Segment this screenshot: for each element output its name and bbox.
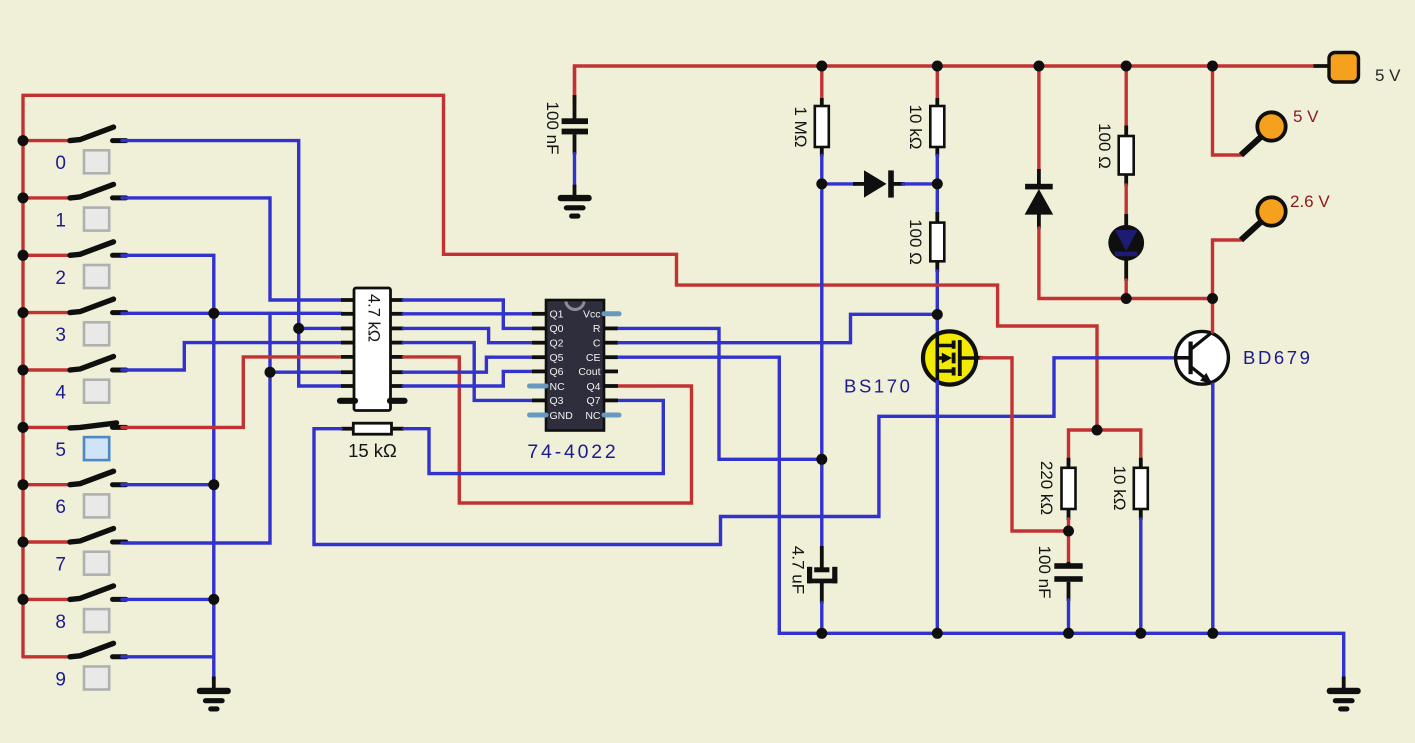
node rail switch6 junction [18,479,29,490]
svg-text:NC: NC [585,410,601,422]
resistor R5 body [935,212,939,224]
wire SW5 to pack row5 [122,357,341,428]
button of SW9 [84,667,109,690]
ground GND1 [573,185,577,196]
wire R1 right to U1 Q7 [404,400,663,473]
svg-text:Q7: Q7 [586,395,600,407]
pin U1 right Vcc (NC) [604,311,619,316]
svg-text:Q6: Q6 [550,366,564,378]
pin RN1 right 4 [390,341,404,345]
svg-text:Q2: Q2 [550,338,564,350]
node R6-R7 top junction [1092,425,1103,436]
wire C2 to ground bus [820,603,823,634]
wire BS170 gate to R6 bottom node [981,358,1069,531]
svg-text:BD679: BD679 [1243,347,1313,368]
svg-text:Q3: Q3 [550,395,564,407]
wire junction to R6 [1069,430,1098,459]
svg-text:100 Ω: 100 Ω [906,219,925,265]
wire R7 to ground bus [1139,519,1142,633]
pin RN1 right 1 [390,298,404,302]
wire pack row5 to U1 Q4 [404,357,692,503]
wire node D1k to R5 [936,184,939,214]
button of SW6 [84,494,109,517]
wire U1 C pin to BS170 drain node [619,314,937,342]
svg-text:0: 0 [55,153,66,174]
pin RN1 left 3 [341,326,355,330]
wire pack row7 to U1 Q6 [404,371,534,386]
pin RN1 right 3 [390,326,404,330]
wire SW0 to pack row7 [122,141,341,386]
pin RN1 right 7 [390,384,404,388]
svg-text:Q4: Q4 [586,381,600,393]
svg-text:10 kΩ: 10 kΩ [1110,466,1129,511]
node LED branch junction [1121,293,1132,304]
switch SW2 [23,242,126,256]
resistor R7 10 kOhm [1134,468,1148,509]
wire pack row2 to U1 Q1 [404,312,534,315]
resistor R6 220 kOhm [1062,468,1076,509]
diode D1 [853,170,905,197]
wire D2 anode to BD679 collector node [1039,228,1213,299]
switch SW4 [23,357,126,371]
button of SW5 [84,437,109,460]
node rail-probe junction [1207,61,1218,72]
node rail switch0 junction [18,135,29,146]
pin RN1 left 5 [341,355,355,359]
wire drain node to BS170 [936,315,939,336]
wire SW6 to ground rail [122,483,214,486]
svg-text:100 nF: 100 nF [1035,546,1054,599]
svg-text:Q1: Q1 [550,309,564,321]
node bus C2 junction [816,628,827,639]
ground GND1 symbol [558,195,592,219]
node SW0 pack-row3 junction [293,323,304,334]
wire SW8 to ground rail [122,598,214,601]
wire rail to R3 [936,66,939,100]
wire rail to D2 cathode [1037,66,1040,171]
probe P2 2.6V [1241,197,1286,240]
node D1 anode junction [816,178,827,189]
wire pack row6 to U1 Q5 [404,357,534,372]
pin U1 left Q3 [532,398,546,402]
svg-text:9: 9 [55,669,66,690]
switch SW0 [23,127,126,141]
node rail switch7 junction [18,537,29,548]
pin RN1 common left [340,398,355,404]
resistor R1 15 kOhm [341,423,404,434]
switch SW1 [23,184,126,198]
resistor pack RN1 4.7 kOhm body [354,288,391,411]
wire D1 to node D1k [903,182,937,185]
node bus BS170 junction [932,628,943,639]
pin U1 right Cout [604,369,618,373]
wire SW3 to pack row2 [122,312,341,315]
svg-text:4: 4 [55,383,66,404]
node row6 junction [265,367,276,378]
button of SW1 [84,208,109,231]
wire R6 to C3 node [1067,519,1070,531]
node rail switch8 junction [18,594,29,605]
pin RN1 common right [390,398,405,404]
pin RN1 right 2 [390,312,404,316]
wire pack row4 to U1 Q3 [404,343,534,401]
wire R4 to LED1 [1124,185,1127,216]
node bus BD679 junction [1207,628,1218,639]
wire rail to R4 [1124,66,1127,127]
node C2 top junction [816,454,827,465]
transistor Q2 BD679 [1176,331,1229,384]
node rail switch5 junction [18,422,29,433]
wire node D1a to D1 [822,182,855,185]
pin U1 right CE [604,355,618,359]
wire BS170 source to ground bus [936,382,939,634]
svg-text:CE: CE [586,352,601,364]
wire probe P2 to BD679 collector node [1213,240,1242,299]
resistor R3 10 kOhm [930,106,944,147]
wire C1 to ground [573,154,576,186]
wire collector node to BD679 [1211,299,1214,333]
node bus R7 junction [1135,628,1146,639]
svg-text:220 kΩ: 220 kΩ [1037,461,1056,515]
wire LED1 to junction [1124,280,1127,299]
resistor R2 1 MOhm [815,106,829,147]
svg-text:6: 6 [55,497,66,518]
wire +5V top rail [575,66,1314,104]
resistor R4 100 Ohm [1119,136,1134,175]
node rail switch3 junction [18,307,29,318]
wire R1 left to BD679 base [314,358,1177,545]
node rail-R3 junction [932,61,943,72]
pin U1 right Q4 [604,384,618,388]
svg-text:5: 5 [55,440,66,461]
svg-text:Q5: Q5 [550,352,564,364]
wire D1 anode node down to C2 [820,184,823,548]
node D1 cathode junction [932,178,943,189]
wire R5 to BS170 drain node [936,271,939,315]
wire C3 to ground bus [1067,600,1070,633]
wire rail to C1 [573,66,576,97]
wire C3 node to C3 [1067,531,1070,564]
svg-text:1: 1 [55,210,66,231]
button of SW0 [84,150,109,173]
pin RN1 left 7 [341,384,355,388]
node rail switch1 junction [18,192,29,203]
pin U1 left Q2 [532,341,546,345]
wire pack row1 to U1 Q0 [404,300,534,328]
svg-text:2.6 V: 2.6 V [1290,192,1330,211]
ground GND3 [1342,677,1346,691]
switch SW3 [23,299,126,313]
wire SW3 branch down to SW7 [122,313,270,543]
switch SW5 [23,423,126,428]
wire R3 to node D1k [936,156,939,184]
wire junction to R7 [1097,430,1141,459]
switch SW9 [23,643,126,657]
node rail-D2 junction [1033,61,1044,72]
svg-text:GND: GND [550,410,574,422]
node SW6 ground junction [208,479,219,490]
node SW3 ground-rail junction [208,308,219,319]
pin U1 left Q6 [532,369,546,373]
svg-text:100 Ω: 100 Ω [1095,123,1114,169]
node rail switch2 junction [18,250,29,261]
pin U1 right C [604,341,618,345]
ground GND2 [212,677,216,691]
svg-text:8: 8 [55,612,66,633]
wire SW1 to pack row1 [122,198,341,300]
wire +5V left feed rail [23,95,1097,657]
svg-text:74-4022: 74-4022 [527,441,618,463]
svg-text:1 MΩ: 1 MΩ [791,106,810,147]
button of SW4 [84,380,109,403]
switch SW7 [23,529,126,543]
svg-text:4.7 uF: 4.7 uF [789,546,808,594]
wire ground rail to GND2 [212,657,215,678]
node BS170 drain junction [932,309,943,320]
svg-text:5 V: 5 V [1375,66,1401,85]
capacitor C1 100 nF [562,95,588,155]
capacitor C3 100 nF [1054,562,1082,601]
ground GND3 symbol [1327,688,1361,712]
button of SW2 [84,265,109,288]
pin U1 left Q0 [532,326,546,330]
wire SW0 branch to pack row3 [299,327,341,330]
svg-text:100 nF: 100 nF [543,102,562,155]
svg-text:10 kΩ: 10 kΩ [906,105,925,150]
wire rail to R2 [820,66,823,100]
resistor R4 body [1124,126,1128,138]
LED LED1 [1108,214,1144,281]
svg-text:Cout: Cout [578,366,600,378]
pin U1 left GND (NC) [530,413,547,418]
pin U1 left NC (NC) [530,384,547,389]
wire U1 CE pin to ground bus [619,357,1344,678]
wire R2 to node D1a [820,156,823,184]
node BD679 collector junction [1207,293,1218,304]
resistor R3 body [935,98,939,107]
svg-text:15 kΩ: 15 kΩ [348,440,397,461]
wire rail to probe P1 [1213,66,1242,155]
pin RN1 left 1 [341,298,355,302]
node rail switch4 junction [18,365,29,376]
svg-text:Vcc: Vcc [583,309,601,321]
op-amp U1 74-4022 body [546,300,604,431]
button of SW3 [84,322,109,345]
node bus C3 junction [1063,628,1074,639]
svg-text:2: 2 [55,268,66,289]
U1 notch [566,302,584,310]
svg-text:3: 3 [55,325,66,346]
wire BD679 emitter to ground bus [1211,384,1214,633]
node R6 C3 junction [1063,526,1074,537]
pin U1 left Q1 [532,312,546,316]
probe P1 5V [1241,112,1286,155]
pin U1 right Q7 [604,398,618,402]
ground GND2 symbol [197,688,231,712]
pin U1 left Q5 [532,355,546,359]
wire SW2 down to ground rail and SW9 [122,255,214,657]
pin RN1 right 6 [390,370,404,374]
pin RN1 right 5 [390,355,404,359]
svg-text:BS170: BS170 [844,376,913,397]
pin BS170 gate stub [974,356,983,360]
node rail-R4 junction [1121,61,1132,72]
resistor R5 100 Ohm [930,223,944,262]
wire pack row3 to U1 Q2 [404,328,534,342]
wire U1 R pin to C2 node [619,328,822,459]
diode D2 [1025,169,1054,229]
pin RN1 left 2 [341,312,355,316]
svg-text:C: C [593,338,601,350]
resistor R6 body [1067,458,1071,469]
svg-text:4.7 kΩ: 4.7 kΩ [365,294,383,342]
resistor R7 body [1139,458,1143,469]
pin U1 right R [604,326,618,330]
svg-text:5 V: 5 V [1293,107,1319,126]
switch SW8 [23,586,126,600]
resistor R2 body [820,98,824,107]
wire junction to pack row6 [270,371,341,374]
switch SW6 [23,471,126,485]
svg-text:NC: NC [550,381,566,393]
wire SW4 to pack row4 [122,343,341,370]
transistor Q1 BS170 [923,331,977,384]
voltage source V1 5V [1314,53,1359,83]
capacitor C2 4.7 uF [807,546,837,604]
pin RN1 left 4 [341,341,355,345]
svg-text:R: R [593,323,601,335]
svg-text:Q0: Q0 [550,323,564,335]
svg-text:7: 7 [55,555,66,576]
button of SW7 [84,552,109,575]
button of SW8 [84,609,109,632]
pin U1 right NC (NC) [604,413,619,418]
pin RN1 left 6 [341,370,355,374]
node rail-R2 junction [816,61,827,72]
node SW8 ground junction [208,594,219,605]
